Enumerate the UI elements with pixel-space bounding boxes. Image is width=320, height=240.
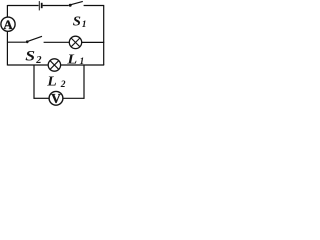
switch S2 blade (28, 36, 42, 41)
wire: bottom from left corner to lamp L2 (7, 64, 48, 66)
lamp L2 (48, 59, 60, 71)
svg-text:A: A (3, 18, 13, 32)
wire: voltmeter loop right vertical (83, 65, 85, 99)
ammeter A (1, 17, 15, 31)
battery short thick plate (41, 3, 43, 8)
switch S1 blade (71, 1, 83, 4)
wire: S1 to top-right corner (84, 5, 105, 7)
wire: left vertical ammeter to bottom (6, 31, 8, 65)
svg-text:S: S (73, 14, 81, 29)
lamp L1 (69, 36, 81, 48)
svg-text:2: 2 (60, 80, 66, 90)
wire: S2 to lamp L1 (44, 41, 70, 43)
wire: voltmeter loop right horizontal (63, 97, 85, 99)
wire: voltmeter loop left vertical (33, 65, 35, 99)
wire: left vertical top to ammeter (6, 5, 8, 17)
wire: right vertical (103, 6, 105, 66)
wire: battery to switch S1 (43, 5, 69, 7)
svg-text:L: L (46, 74, 57, 89)
battery long plate (38, 1, 40, 10)
switch S2 pivot dot (26, 40, 29, 43)
wire: lamp L2 to bottom-right corner (61, 64, 105, 66)
switch S1 pivot dot (69, 4, 72, 7)
svg-text:S: S (25, 48, 35, 64)
wire: top-left to battery (7, 5, 38, 7)
voltmeter V (49, 91, 63, 105)
wire: voltmeter loop left horizontal (34, 97, 50, 99)
wire: middle branch stub from left vertical (7, 41, 26, 43)
svg-text:1: 1 (82, 20, 87, 30)
wire: lamp L1 to right vertical (82, 41, 105, 43)
background (0, 0, 107, 106)
svg-text:V: V (51, 91, 61, 106)
